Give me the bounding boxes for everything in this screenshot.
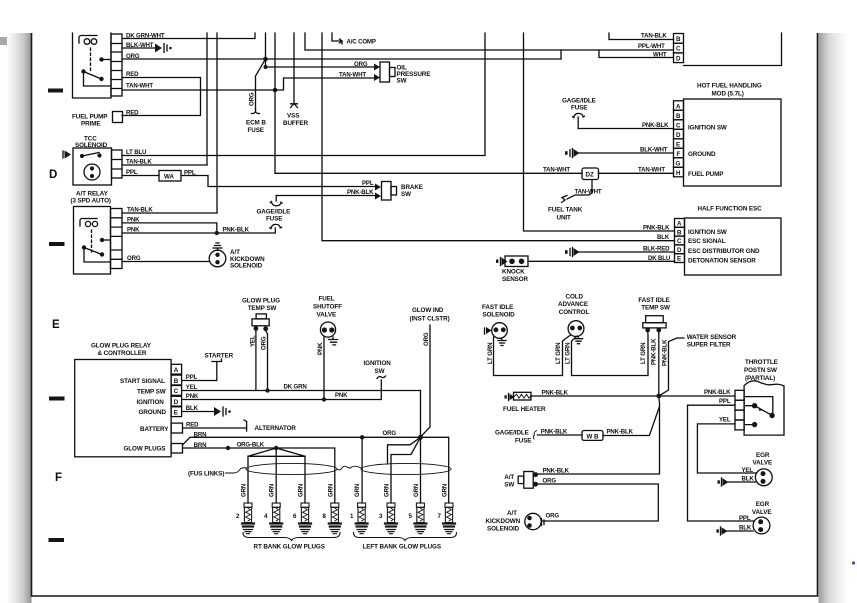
fuse pointer bbox=[533, 431, 536, 440]
glow plug 8 bbox=[329, 503, 341, 534]
svg-text:IGNITION: IGNITION bbox=[364, 360, 392, 367]
svg-text:G: G bbox=[676, 160, 681, 167]
svg-text:MOD (5.7L): MOD (5.7L) bbox=[712, 91, 744, 98]
junction dot plug1 feed bbox=[360, 435, 364, 439]
row tick (top left margin) bbox=[48, 89, 63, 93]
svg-text:RED: RED bbox=[186, 422, 199, 429]
wire bus x=305 (top edge, elbow to PPL-WHT line) bbox=[305, 33, 673, 50]
wire PNK-BLK (fuse to brake sw) bbox=[276, 195, 375, 197]
svg-text:KNOCK: KNOCK bbox=[502, 269, 525, 276]
wire PNK-BLK (fuel heater to throttle sw) bbox=[531, 395, 735, 397]
wire LT GRN (cold advance right pin) bbox=[572, 336, 578, 376]
wire TAN-WHT (DZ to hot fuel pin H) bbox=[599, 172, 674, 174]
glow plug 3 bbox=[385, 503, 397, 534]
svg-text:H: H bbox=[676, 170, 681, 177]
wire PPL (TCC to WA connector) bbox=[122, 175, 159, 177]
fuse GAGE/IDLE (left) bbox=[275, 196, 277, 202]
wire BLK-RED (suppressor to ESC pin D) bbox=[576, 251, 675, 253]
wire BLK (EGR 1) bbox=[728, 481, 756, 483]
glow plug 5 bbox=[414, 503, 426, 534]
junction dot harness fork bbox=[274, 446, 278, 450]
svg-text:PNK-BLK: PNK-BLK bbox=[642, 122, 669, 129]
wire LT GRN (cold advance left pin) bbox=[563, 335, 571, 376]
svg-text:GRN: GRN bbox=[298, 484, 305, 497]
svg-text:ADVANCE: ADVANCE bbox=[558, 301, 588, 308]
svg-text:GRN: GRN bbox=[354, 484, 361, 497]
svg-text:COLD: COLD bbox=[566, 294, 584, 301]
A/T kickdown solenoid bbox=[209, 243, 226, 267]
wire TAN-BLK (TCC to bus 207) bbox=[122, 164, 207, 166]
svg-text:PNK: PNK bbox=[186, 393, 199, 400]
svg-text:GROUND: GROUND bbox=[688, 151, 716, 158]
plug 6 feed wire bbox=[304, 456, 306, 503]
wire PNK-BLK (fuse to WB) bbox=[538, 434, 583, 436]
svg-text:BLK-WHT: BLK-WHT bbox=[126, 42, 154, 49]
half function ESC box bbox=[685, 218, 782, 275]
noise suppressor (glow relay ground) bbox=[214, 407, 231, 416]
svg-text:KICKDOWN: KICKDOWN bbox=[486, 518, 521, 525]
wire RED (relay to fuel pump prime) bbox=[122, 78, 201, 116]
svg-text:SOLENOID: SOLENOID bbox=[487, 526, 520, 533]
wire bus x=523.5 PNK-BLK (top edge to ESC pin B) bbox=[524, 33, 674, 231]
svg-text:C: C bbox=[174, 388, 179, 395]
fuel heater bbox=[505, 392, 532, 400]
svg-text:PNK-BLK: PNK-BLK bbox=[650, 338, 657, 365]
throttle position switch body bbox=[744, 381, 784, 435]
svg-text:SHUTOFF: SHUTOFF bbox=[313, 304, 342, 311]
glow plug 1 bbox=[356, 503, 368, 534]
svg-text:C: C bbox=[676, 122, 681, 129]
svg-text:ORG: ORG bbox=[249, 92, 256, 106]
svg-text:B: B bbox=[676, 113, 681, 120]
throttle sw pin cells bbox=[735, 390, 744, 430]
svg-text:ESC SIGNAL: ESC SIGNAL bbox=[688, 238, 726, 245]
svg-text:BLK-WHT: BLK-WHT bbox=[640, 147, 668, 154]
wire PNK-BLK riser (junction to A/T sw wire) bbox=[538, 396, 660, 474]
svg-text:GRN: GRN bbox=[327, 484, 334, 497]
wire PNK jumper (pin to pin) bbox=[122, 223, 217, 233]
svg-text:PNK-BLK: PNK-BLK bbox=[223, 227, 250, 234]
junction dot ORG stub bbox=[264, 65, 268, 69]
plug 5 feed wire (ignition line) bbox=[420, 391, 422, 504]
svg-text:THROTTLE: THROTTLE bbox=[745, 359, 778, 366]
svg-text:ORG: ORG bbox=[127, 255, 141, 262]
svg-text:BRN: BRN bbox=[194, 442, 207, 449]
svg-text:PNK-BLK: PNK-BLK bbox=[542, 390, 569, 397]
svg-text:BLK: BLK bbox=[186, 405, 199, 412]
top right connector box bbox=[684, 33, 782, 66]
svg-text:D: D bbox=[49, 169, 57, 181]
wire DK BLU (knock sensor to ESC pin E) bbox=[528, 260, 675, 262]
ESC pins A-E bbox=[675, 219, 685, 263]
wire PNK-BLK (WB to junction riser) bbox=[603, 407, 659, 436]
wire LT GRN (temp sw to bracket) bbox=[647, 332, 649, 376]
svg-text:DK GRN-WHT: DK GRN-WHT bbox=[126, 33, 165, 40]
svg-text:TAN-BLK: TAN-BLK bbox=[127, 207, 153, 214]
ignition switch tap bbox=[380, 380, 382, 391]
svg-text:BUFFER: BUFFER bbox=[283, 120, 308, 127]
TCC solenoid bbox=[63, 148, 122, 185]
noise suppressor (EGR 1) bbox=[718, 478, 729, 486]
fast idle temp switch bbox=[643, 316, 666, 333]
wire BRN / ORG-BLK (glow plugs tab to plug 8 elbow) bbox=[183, 448, 335, 503]
wire PNK (pin D to riser at ignition sw) bbox=[182, 391, 382, 400]
svg-text:GAGE/IDLE: GAGE/IDLE bbox=[495, 430, 529, 437]
fuel shutoff valve bbox=[320, 322, 337, 345]
fusible link ellipse RT bank bbox=[246, 463, 337, 474]
wire BLK (pin E to suppressor) bbox=[182, 411, 214, 413]
wire PPL (pin B to starter) bbox=[182, 362, 217, 381]
plug 3 feed wire and step bbox=[391, 437, 421, 503]
svg-text:ORG-BLK: ORG-BLK bbox=[237, 442, 265, 449]
svg-text:STARTER: STARTER bbox=[205, 353, 234, 360]
wire TAN-BLK (A/T relay to bus 217) bbox=[122, 212, 217, 214]
svg-text:LT BLU: LT BLU bbox=[126, 149, 147, 156]
A/T switch bbox=[518, 472, 538, 489]
svg-text:A/T: A/T bbox=[504, 474, 514, 481]
svg-text:EGR: EGR bbox=[756, 452, 770, 459]
wire TAN-WHT (DZ pigtail to fuel tank unit) bbox=[567, 180, 592, 200]
svg-text:TAN-WHT: TAN-WHT bbox=[339, 72, 366, 79]
glow plug 6 bbox=[299, 503, 311, 534]
wire bus x=322 (top edge to ESC BLK wire) bbox=[322, 33, 674, 241]
svg-text:PNK-BLK: PNK-BLK bbox=[541, 428, 568, 435]
row tick (left margin, D row) bbox=[49, 242, 65, 246]
svg-text:PRIME: PRIME bbox=[81, 121, 100, 128]
svg-text:D: D bbox=[174, 399, 179, 406]
noise suppressor (ESC distributor gnd) bbox=[565, 248, 580, 257]
svg-text:D: D bbox=[677, 247, 682, 254]
wire RED (battery to alternator) bbox=[183, 427, 247, 429]
svg-text:ESC DISTRIBUTOR GND: ESC DISTRIBUTOR GND bbox=[688, 248, 760, 255]
relay K1 (top-left main relay) bbox=[73, 33, 123, 98]
knock sensor bbox=[496, 256, 528, 267]
svg-text:BATTERY: BATTERY bbox=[140, 426, 169, 433]
wire bracket (solenoid to cold advance) bbox=[494, 375, 563, 377]
wire BLK-WHT (suppressor to hot fuel pin F) bbox=[576, 152, 674, 154]
svg-text:FUSE: FUSE bbox=[571, 105, 587, 112]
junction dot TAN-WHT / DZ bus bbox=[273, 88, 278, 93]
svg-text:3: 3 bbox=[379, 513, 383, 520]
svg-text:VSS: VSS bbox=[287, 113, 299, 120]
wire ORG (A/T relay to kickdown solenoid) bbox=[122, 261, 209, 263]
hot fuel pins A-H bbox=[674, 101, 684, 177]
harness fork diagonals and bar bbox=[248, 448, 305, 456]
glow relay pins A-E bbox=[171, 364, 182, 416]
svg-text:GRN: GRN bbox=[384, 484, 391, 497]
fus links squiggle middle bbox=[337, 466, 361, 470]
svg-text:6: 6 bbox=[293, 513, 297, 520]
wire BRN / ORG (glow plugs tab to plug 7 elbow) bbox=[183, 437, 449, 503]
wire ORG (temp sw to DK GRN line) bbox=[266, 331, 268, 391]
svg-text:IGNITION: IGNITION bbox=[137, 399, 165, 406]
svg-text:DK GRN: DK GRN bbox=[284, 384, 307, 391]
svg-text:DK BLU: DK BLU bbox=[648, 255, 671, 262]
glow plug relay and controller box bbox=[75, 360, 171, 457]
svg-text:WHT: WHT bbox=[653, 52, 667, 59]
svg-text:D: D bbox=[676, 55, 681, 62]
EGR valve 2 bbox=[753, 517, 770, 534]
connector WB bbox=[582, 431, 603, 441]
svg-text:F: F bbox=[677, 151, 681, 158]
glow plugs tab bbox=[171, 444, 182, 454]
svg-text:TEMP SW: TEMP SW bbox=[137, 389, 166, 396]
svg-text:GRN: GRN bbox=[241, 484, 248, 497]
svg-text:(INST CLSTR): (INST CLSTR) bbox=[410, 316, 450, 323]
svg-text:BLK: BLK bbox=[742, 475, 755, 482]
svg-text:PNK-BLK: PNK-BLK bbox=[643, 225, 670, 232]
svg-text:TAN-WHT: TAN-WHT bbox=[126, 83, 153, 90]
svg-text:TAN-WHT: TAN-WHT bbox=[575, 189, 602, 196]
wire YEL (temp sw to pin C line) bbox=[255, 330, 257, 391]
hot fuel handling module box bbox=[684, 99, 782, 186]
connector DZ bbox=[582, 168, 599, 180]
svg-text:F: F bbox=[55, 472, 62, 484]
svg-text:A: A bbox=[174, 367, 179, 374]
svg-text:A/T: A/T bbox=[507, 510, 517, 517]
svg-text:SW: SW bbox=[401, 191, 411, 198]
wire DK GRN-WHT (relay to top edge) bbox=[122, 33, 255, 39]
svg-text:DZ: DZ bbox=[586, 172, 594, 179]
fuel pump prime connector bbox=[113, 112, 123, 123]
svg-text:& CONTROLLER: & CONTROLLER bbox=[98, 350, 147, 357]
svg-text:E: E bbox=[174, 410, 178, 417]
junction dot ORG / DK GRN bbox=[265, 388, 269, 392]
svg-text:FUSE: FUSE bbox=[515, 437, 531, 444]
svg-text:SW: SW bbox=[504, 481, 514, 488]
water sensor super filter bbox=[659, 338, 684, 396]
fusible link ellipse LEFT bank bbox=[361, 463, 451, 474]
svg-text:FAST IDLE: FAST IDLE bbox=[638, 297, 669, 304]
svg-text:VALVE: VALVE bbox=[752, 509, 772, 516]
svg-text:(PARTIAL): (PARTIAL) bbox=[745, 375, 775, 382]
wire bus x=609 TAN-BLK (top edge to top connector pin B) bbox=[609, 33, 674, 40]
svg-text:5: 5 bbox=[409, 513, 413, 520]
svg-text:GRN: GRN bbox=[442, 484, 449, 497]
svg-text:ORG: ORG bbox=[543, 478, 557, 485]
svg-text:E: E bbox=[52, 319, 60, 331]
junction dot BRN/ORG-BLK splice bbox=[226, 446, 230, 450]
glow plug 7 bbox=[443, 503, 455, 534]
svg-text:PPL-WHT: PPL-WHT bbox=[638, 43, 665, 50]
svg-text:SOLENOID: SOLENOID bbox=[483, 312, 516, 319]
svg-text:IGNITION SW: IGNITION SW bbox=[688, 229, 727, 236]
wire PNK-BLK (temp sw down to junction) bbox=[658, 332, 660, 397]
svg-text:HALF FUNCTION ESC: HALF FUNCTION ESC bbox=[698, 206, 763, 213]
svg-text:PNK: PNK bbox=[317, 342, 324, 355]
wire PNK / PNK-BLK (to gage-idle fuse) bbox=[122, 228, 275, 233]
wire bracket (cold advance to fast idle temp sw) bbox=[572, 375, 649, 377]
junction dot PNK-BLK net bbox=[656, 394, 661, 399]
svg-text:FUEL TANK: FUEL TANK bbox=[548, 207, 583, 214]
svg-text:YEL: YEL bbox=[719, 417, 731, 424]
svg-text:ORG: ORG bbox=[261, 336, 268, 350]
svg-text:TAN-BLK: TAN-BLK bbox=[126, 159, 152, 166]
svg-text:TAN-WHT: TAN-WHT bbox=[638, 167, 665, 174]
svg-text:LT GRN: LT GRN bbox=[487, 343, 494, 364]
svg-text:A: A bbox=[676, 103, 681, 110]
svg-text:GLOW PLUGS: GLOW PLUGS bbox=[124, 446, 166, 453]
svg-text:YEL: YEL bbox=[742, 467, 754, 474]
wire bus x=485 LT BLU (top edge to TCC line) bbox=[122, 33, 485, 156]
svg-text:GRN: GRN bbox=[269, 484, 276, 497]
junction dot ORG/ECM B fuse bbox=[263, 57, 268, 62]
svg-text:TAN-WHT: TAN-WHT bbox=[543, 167, 570, 174]
svg-text:E: E bbox=[677, 256, 681, 263]
svg-text:LEFT BANK GLOW PLUGS: LEFT BANK GLOW PLUGS bbox=[363, 544, 441, 551]
svg-text:FAST IDLE: FAST IDLE bbox=[482, 304, 513, 311]
wire bus x=294 VSS (top edge down) bbox=[293, 33, 295, 104]
svg-text:GRN: GRN bbox=[413, 484, 420, 497]
wire BLK (EGR 2) bbox=[727, 530, 753, 532]
noise suppressor (EGR 2) bbox=[717, 527, 728, 535]
svg-text:SENSOR: SENSOR bbox=[502, 276, 529, 283]
svg-text:FUEL PUMP: FUEL PUMP bbox=[688, 171, 723, 178]
svg-text:PPL: PPL bbox=[126, 169, 138, 176]
svg-text:GROUND: GROUND bbox=[139, 409, 167, 416]
svg-text:B: B bbox=[676, 36, 681, 43]
brace RT bank bbox=[243, 533, 340, 541]
svg-text:A/T RELAY: A/T RELAY bbox=[76, 191, 109, 198]
wire PPL (throttle sw to EGR valve 2) bbox=[688, 405, 754, 521]
brake switch bbox=[375, 182, 397, 201]
svg-text:RED: RED bbox=[126, 71, 139, 78]
fast idle solenoid bbox=[485, 323, 508, 346]
wire ORG riser to PPL-WHT line bbox=[560, 50, 562, 59]
svg-text:PPL: PPL bbox=[362, 180, 374, 187]
junction dot fuel shutoff / PNK bbox=[322, 397, 326, 401]
glow plug 4 bbox=[270, 503, 282, 534]
svg-text:C: C bbox=[677, 238, 682, 245]
battery tab bbox=[171, 423, 182, 433]
svg-text:ORG: ORG bbox=[383, 430, 397, 437]
svg-text:BRN: BRN bbox=[194, 432, 207, 439]
A/T relay bbox=[74, 207, 123, 275]
oil pressure switch bbox=[374, 62, 395, 82]
svg-text:ORG: ORG bbox=[126, 53, 140, 60]
svg-text:A/C COMP: A/C COMP bbox=[347, 39, 376, 46]
svg-text:WATER SENSOR: WATER SENSOR bbox=[687, 334, 737, 341]
svg-text:B: B bbox=[677, 229, 682, 236]
svg-text:C: C bbox=[676, 46, 681, 53]
svg-text:GAGE/IDLE: GAGE/IDLE bbox=[257, 209, 291, 216]
fuse ECM B bbox=[252, 109, 260, 114]
svg-text:E: E bbox=[676, 141, 680, 148]
svg-text:TEMP SW: TEMP SW bbox=[248, 305, 277, 312]
wire YEL / DK GRN line (pin C to elbow 420.5) bbox=[182, 390, 421, 392]
svg-text:BLK: BLK bbox=[739, 524, 752, 531]
svg-text:PPL: PPL bbox=[186, 374, 198, 381]
blue speck bbox=[852, 561, 855, 564]
svg-text:ALTERNATOR: ALTERNATOR bbox=[255, 425, 297, 432]
svg-text:GAGE/IDLE: GAGE/IDLE bbox=[562, 98, 596, 105]
wire PNK-BLK (fuse to hot fuel pin C) bbox=[578, 128, 673, 130]
wire ORG (relay, long run to x=561) bbox=[122, 58, 561, 60]
svg-text:PNK: PNK bbox=[335, 392, 348, 399]
svg-text:PPL: PPL bbox=[719, 398, 731, 405]
svg-text:CONTROL: CONTROL bbox=[559, 309, 590, 316]
fuse GAGE/IDLE (top right) bbox=[577, 117, 579, 129]
wire YEL (throttle sw to EGR valve 1) bbox=[697, 424, 755, 473]
svg-text:B: B bbox=[174, 378, 179, 385]
wire WHT tie riser bbox=[599, 50, 674, 58]
svg-text:ORG: ORG bbox=[546, 513, 560, 520]
svg-text:SW: SW bbox=[375, 368, 385, 375]
wire BLK-WHT (relay to suppressor) bbox=[122, 47, 155, 49]
harness stub line bbox=[388, 437, 421, 464]
glow plug 2 bbox=[242, 503, 254, 534]
plug 1 feed wire bbox=[361, 437, 363, 503]
svg-text:A: A bbox=[677, 221, 682, 228]
wire A/C COMP stub bbox=[332, 33, 342, 44]
row tick (left margin, F row) bbox=[49, 538, 65, 542]
svg-text:WA: WA bbox=[164, 174, 174, 181]
diagonal ORG to ECM B fuse bbox=[256, 59, 266, 109]
svg-text:BLK-RED: BLK-RED bbox=[643, 246, 670, 253]
fus links squiggle left bbox=[226, 468, 247, 473]
svg-text:YEL: YEL bbox=[186, 384, 198, 391]
wire LT GRN (fast idle solenoid down) bbox=[493, 337, 495, 376]
wire bus x=265 (top edge through ORG dot to oil pressure ORG) bbox=[266, 33, 375, 67]
svg-text:YEL: YEL bbox=[250, 335, 257, 347]
svg-text:VALVE: VALVE bbox=[753, 460, 773, 467]
svg-text:2: 2 bbox=[236, 513, 240, 520]
A/T kickdown solenoid 2 bbox=[525, 513, 544, 529]
plug 2 feed wire bbox=[247, 456, 249, 503]
svg-text:POSTN SW: POSTN SW bbox=[744, 367, 777, 374]
starter symbol bbox=[212, 359, 222, 362]
wire ORG (A/T sw loop to kickdown solenoid) bbox=[538, 484, 659, 521]
svg-text:ORG: ORG bbox=[354, 61, 368, 68]
svg-text:BRAKE: BRAKE bbox=[401, 184, 423, 191]
wire PPL (WA to brake sw) bbox=[181, 176, 375, 187]
svg-text:PNK-BLK: PNK-BLK bbox=[704, 389, 731, 396]
svg-text:FUEL PUMP: FUEL PUMP bbox=[72, 114, 107, 121]
svg-text:BLK: BLK bbox=[657, 234, 670, 241]
connector WA bbox=[159, 171, 181, 182]
svg-text:SUPER FILTER: SUPER FILTER bbox=[687, 341, 731, 348]
svg-text:START SIGNAL: START SIGNAL bbox=[120, 378, 165, 385]
svg-text:TEMP SW: TEMP SW bbox=[641, 305, 670, 312]
brace LEFT bank bbox=[354, 533, 457, 541]
svg-text:SOLENOID: SOLENOID bbox=[230, 263, 263, 270]
glow plug temp switch bbox=[252, 314, 269, 331]
svg-text:LT GRN: LT GRN bbox=[555, 343, 562, 364]
svg-text:PNK-BLK: PNK-BLK bbox=[543, 467, 570, 474]
noise suppressor (BLK-WHT) bbox=[155, 44, 172, 53]
svg-text:PNK: PNK bbox=[127, 217, 140, 224]
svg-text:D: D bbox=[676, 132, 681, 139]
svg-text:FUSE: FUSE bbox=[266, 216, 282, 223]
svg-text:GLOW PLUG: GLOW PLUG bbox=[242, 298, 280, 305]
plug 4 feed wire bbox=[275, 448, 277, 503]
svg-text:8: 8 bbox=[323, 513, 327, 520]
svg-text:IGNITION SW: IGNITION SW bbox=[688, 125, 727, 132]
svg-text:W B: W B bbox=[587, 433, 600, 440]
wire PNK (fuel shutoff to PNK line) bbox=[323, 337, 325, 400]
svg-text:FUEL: FUEL bbox=[319, 296, 335, 303]
svg-text:ORG: ORG bbox=[423, 332, 430, 346]
cold advance control bbox=[568, 321, 584, 344]
row tick (left margin, E row) bbox=[49, 397, 65, 401]
wire bus x=275 (top edge to TAN-WHT fuel pump line) bbox=[275, 33, 582, 173]
wire bus x=217 (top edge to A/T relay TAN-BLK) bbox=[216, 33, 218, 213]
svg-text:FUSE: FUSE bbox=[248, 127, 264, 134]
svg-text:HOT FUEL HANDLING: HOT FUEL HANDLING bbox=[697, 83, 762, 90]
svg-text:LT GRN: LT GRN bbox=[640, 343, 647, 364]
noise suppressor (hot fuel ground) bbox=[565, 149, 580, 158]
svg-text:RED: RED bbox=[126, 110, 139, 117]
